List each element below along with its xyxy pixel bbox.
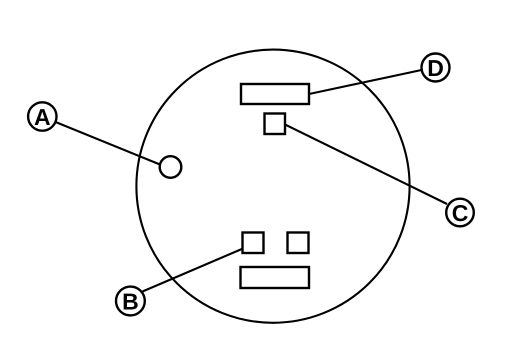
lower-right square slot bbox=[288, 233, 309, 254]
lower-left square slot (target of B) bbox=[243, 233, 264, 254]
callout circle A bbox=[28, 102, 56, 130]
top rectangle slot (target of D) bbox=[241, 84, 309, 104]
lead line A bbox=[56, 122, 161, 165]
callout circle B bbox=[116, 287, 145, 316]
callout circle C bbox=[446, 199, 474, 227]
lead line C bbox=[285, 125, 447, 205]
lead line B bbox=[143, 249, 244, 292]
lead line D bbox=[309, 70, 422, 94]
bottom rectangle slot bbox=[241, 267, 310, 288]
svg-text:C: C bbox=[452, 200, 469, 226]
svg-text:D: D bbox=[427, 55, 444, 81]
callout circle D bbox=[422, 54, 450, 82]
svg-text:A: A bbox=[34, 104, 51, 130]
small square slot (target of C) bbox=[265, 114, 286, 135]
small round opening (target of A) bbox=[160, 156, 182, 178]
svg-text:B: B bbox=[122, 289, 139, 315]
outer circle (device outline) bbox=[136, 50, 409, 323]
